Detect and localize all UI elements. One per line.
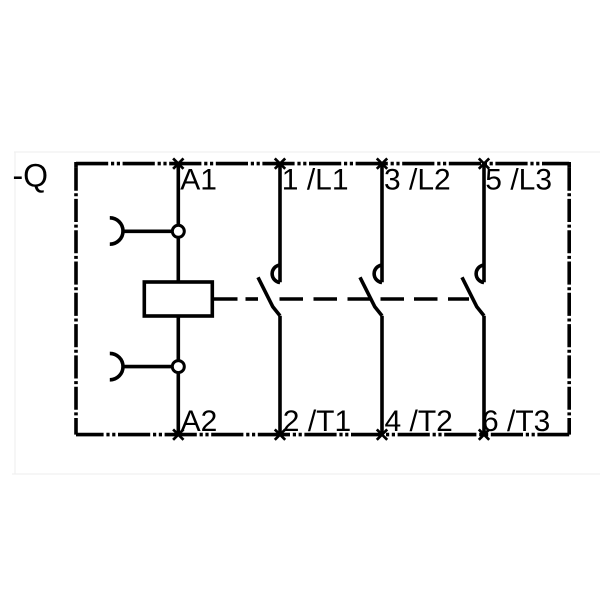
pole 2 upper wire (3/L2)	[380, 164, 384, 283]
decorative faint card rules (no labels)	[14, 151, 600, 153]
svg-text:A2: A2	[181, 405, 218, 438]
label 6 /T3	[482, 405, 550, 438]
svg-text:6 /T3: 6 /T3	[482, 405, 550, 438]
pole 3 moving contact blade	[462, 277, 484, 316]
pole 1 lower wire (2/T1)	[278, 316, 282, 435]
label 5 /L3	[485, 163, 552, 196]
label A1	[180, 163, 217, 196]
svg-text:3 /L2: 3 /L2	[384, 163, 451, 196]
junction node circle (bottom)	[172, 361, 184, 373]
pole 2 fixed contact arc	[374, 265, 382, 283]
pole 1 fixed contact arc	[272, 265, 280, 283]
pole 2 moving contact blade	[360, 277, 382, 316]
pole 3 fixed contact arc	[476, 265, 484, 283]
svg-text:A1: A1	[180, 163, 217, 196]
wire fork to junction (bottom)	[123, 365, 171, 369]
coil input fork connector (top)	[110, 218, 123, 244]
operating coil (rectangle)	[144, 282, 212, 316]
label 4 /T2	[385, 405, 453, 438]
coil input fork connector (bottom)	[110, 353, 123, 379]
label A2	[181, 405, 218, 438]
pole 3 upper wire (5/L3)	[482, 164, 486, 283]
svg-text:5 /L3: 5 /L3	[485, 163, 552, 196]
terminal 2/T1 X-mark	[275, 429, 285, 439]
pole 2 lower wire (4/T2)	[380, 316, 384, 435]
mechanical linkage (dashed actuator line)	[212, 297, 469, 301]
label 2 /T1	[283, 405, 351, 438]
junction node circle (top)	[172, 225, 184, 237]
device designator -Q	[13, 158, 49, 194]
contactor enclosure boundary (dash-dot-dot frame)	[76, 162, 569, 435]
terminal 6/T3 X-mark	[479, 429, 489, 439]
terminal A1 X-mark	[173, 158, 183, 168]
svg-text:-Q: -Q	[13, 158, 49, 194]
wire fork to junction (top)	[123, 230, 171, 234]
coil branch wire A1-A2 (vertical)	[177, 164, 181, 435]
pole 1 upper wire (1/L1)	[278, 164, 282, 283]
label 1 /L1	[282, 163, 349, 196]
pole 1 moving contact blade	[258, 277, 280, 316]
terminal 5/L3 X-mark	[479, 158, 489, 168]
terminal A2 X-mark	[173, 429, 183, 439]
label 3 /L2	[384, 163, 451, 196]
terminal 4/T2 X-mark	[377, 429, 387, 439]
svg-text:1 /L1: 1 /L1	[282, 163, 349, 196]
terminal 1/L1 X-mark	[275, 158, 285, 168]
svg-text:4 /T2: 4 /T2	[385, 405, 453, 438]
svg-text:2 /T1: 2 /T1	[283, 405, 351, 438]
terminal 3/L2 X-mark	[377, 158, 387, 168]
pole 3 lower wire (6/T3)	[482, 316, 486, 435]
